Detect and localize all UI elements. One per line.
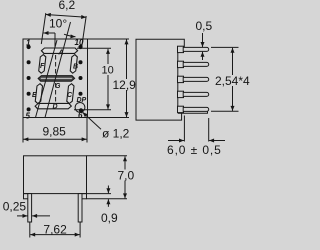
- dim 6,2 line: [46, 15, 86, 18]
- dim 0,5 arrow top: [202, 33, 204, 47]
- svg-text:7,62: 7,62: [43, 223, 67, 237]
- svg-text:6,0 ± 0,5: 6,0 ± 0,5: [167, 143, 222, 157]
- dim 7,62 line: [30, 234, 79, 236]
- dim 2,54 line: [232, 48, 234, 111]
- dim 7,62 ext left: [29, 223, 31, 238]
- pins shelf: [178, 111, 208, 113]
- svg-text:0,5: 0,5: [196, 19, 213, 33]
- pin 2 root: [178, 61, 184, 67]
- dim 6,2 ext left: [41, 13, 46, 44]
- dim 9,85 ext left: [22, 118, 24, 143]
- svg-text:0,25: 0,25: [3, 199, 27, 213]
- pin dot 5: [27, 107, 31, 111]
- left foot: [24, 194, 29, 199]
- svg-text:10: 10: [102, 65, 114, 77]
- dim 0,9 arrow top: [107, 186, 109, 194]
- dim 7,0 ext bottom: [87, 193, 112, 195]
- package body side: [136, 39, 184, 120]
- segment E: [35, 84, 43, 104]
- segment B: [70, 55, 78, 74]
- pin dot 8: [79, 76, 83, 80]
- svg-text:2,54*4: 2,54*4: [215, 74, 250, 88]
- halo 12,9: [111, 79, 135, 90]
- pin 5 side: [183, 107, 209, 111]
- package body bottom view: [24, 156, 87, 194]
- svg-text:6: 6: [78, 111, 83, 120]
- left lead: [28, 194, 32, 222]
- dim 6,0 ext right: [208, 118, 210, 142]
- pin dot 3: [27, 76, 31, 80]
- svg-text:6,2: 6,2: [59, 0, 76, 12]
- dim 7,0 line: [124, 156, 126, 198]
- segment F: [38, 55, 46, 74]
- segment G: [38, 76, 75, 82]
- 7-segment digit (skewed 8deg): [34, 48, 78, 109]
- dim 9,85 ext right: [86, 118, 88, 143]
- vertical angle reference: [54, 33, 56, 47]
- svg-text:5: 5: [26, 112, 31, 121]
- pin 4 root: [178, 91, 184, 97]
- dim 0,25 arrow left: [17, 215, 28, 217]
- halo 10: [100, 64, 115, 75]
- dim 10 line: [107, 49, 109, 110]
- svg-text:G: G: [55, 83, 61, 90]
- dim 9,85 line: [23, 138, 86, 140]
- dim 10 ext top: [77, 47, 111, 49]
- svg-text:10°: 10°: [49, 16, 67, 30]
- pin dot 6: [79, 108, 83, 112]
- angle arrow right: [64, 34, 76, 37]
- right lead: [78, 194, 82, 222]
- segment A: [41, 48, 78, 53]
- pin 3 side: [183, 77, 209, 81]
- dim 7,0 ext top: [87, 155, 128, 157]
- pin dot 7: [79, 92, 83, 96]
- decimal point DP circle: [75, 103, 85, 113]
- pin 4 side: [183, 92, 209, 96]
- dim 7,62 ext right: [79, 223, 81, 238]
- pin 1 root: [178, 46, 184, 52]
- pin dot 9: [79, 60, 83, 64]
- dim 0,9 ext: [87, 198, 128, 200]
- segment C: [67, 84, 75, 104]
- dim 12,9 ext top: [88, 38, 129, 40]
- svg-text:10: 10: [75, 38, 84, 47]
- dim 12,9 ext bottom: [88, 117, 130, 119]
- pin dot 10: [78, 45, 82, 49]
- halo 2,54: [214, 75, 249, 86]
- segment D: [35, 103, 72, 108]
- segment G stripe: [41, 77, 72, 79]
- pin dots front view: [27, 45, 84, 113]
- svg-text:F: F: [40, 63, 45, 70]
- svg-text:E: E: [32, 92, 37, 99]
- pin dot 1: [27, 45, 31, 49]
- svg-text:12,9: 12,9: [113, 78, 137, 92]
- slant centerline 2: [45, 22, 71, 118]
- right foot: [82, 194, 87, 199]
- pin 5 root: [178, 106, 184, 112]
- label 7,0: [117, 170, 136, 181]
- dim 10 ext bottom: [74, 109, 111, 111]
- pin 2 side: [183, 62, 209, 66]
- svg-text:9,85: 9,85: [43, 125, 67, 139]
- svg-text:B: B: [73, 64, 78, 71]
- dim 6,2 ext right: [82, 16, 87, 49]
- dim 12,9 line: [126, 39, 128, 117]
- svg-text:0,9: 0,9: [101, 211, 118, 225]
- dim 6,0 ext left: [183, 116, 185, 142]
- dim 6,0 arrow left: [168, 140, 184, 142]
- dim 6,0 arrow right: [209, 140, 225, 142]
- svg-text:A: A: [58, 50, 64, 57]
- dim 0,9 arrow bottom: [107, 199, 109, 207]
- dim 2,54 ext top: [211, 46, 239, 48]
- dim 0,25 arrow right: [32, 215, 50, 217]
- leader o1,2: [83, 112, 101, 129]
- angle arrow left: [44, 32, 56, 34]
- svg-text:D: D: [53, 104, 58, 111]
- svg-text:ø 1,2: ø 1,2: [102, 127, 130, 141]
- svg-text:DP: DP: [77, 97, 87, 104]
- dim 2,54 ext bottom: [211, 110, 239, 112]
- pin dot 4: [27, 92, 31, 96]
- pin 3 root: [178, 76, 184, 82]
- svg-text:1: 1: [26, 39, 31, 48]
- display body outline: [23, 39, 88, 118]
- pin 1 side: [183, 47, 209, 51]
- svg-text:7,0: 7,0: [118, 168, 135, 182]
- digit vertical centerline (dashed): [55, 48, 57, 108]
- slant centerline 1: [36, 40, 58, 118]
- dim 0,5 arrow bottom: [202, 52, 204, 60]
- pin dot 2: [27, 60, 31, 64]
